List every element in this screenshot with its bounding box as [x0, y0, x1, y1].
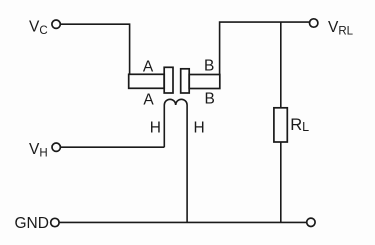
svg-text:A: A — [143, 58, 154, 75]
wire resistor R_L to ground — [280, 142, 282, 222]
wire junction to resistor R_L — [280, 22, 282, 108]
terminal V_H — [52, 143, 60, 151]
ground rail wire — [59, 221, 306, 223]
heater filament H — [164, 99, 187, 222]
terminal V_RL — [310, 19, 318, 27]
wire V_C to thermocouple arm A — [61, 24, 130, 74]
wire V_H to heater — [61, 146, 165, 148]
svg-text:B: B — [205, 90, 215, 107]
terminal GND left — [51, 218, 59, 226]
thermocouple arm B — [189, 75, 220, 89]
hot-junction block right — [181, 69, 190, 93]
svg-text:B: B — [204, 58, 214, 75]
hot-junction block left — [164, 67, 173, 93]
svg-text:H: H — [150, 120, 161, 137]
svg-text:A: A — [143, 92, 154, 109]
resistor R_L — [274, 108, 287, 142]
thermocouple arm A — [129, 74, 165, 88]
terminal V_C — [52, 20, 60, 28]
svg-text:GND: GND — [15, 215, 49, 232]
wire arm B to V_RL terminal — [220, 22, 310, 74]
svg-text:H: H — [193, 120, 204, 137]
terminal GND right — [307, 218, 315, 226]
